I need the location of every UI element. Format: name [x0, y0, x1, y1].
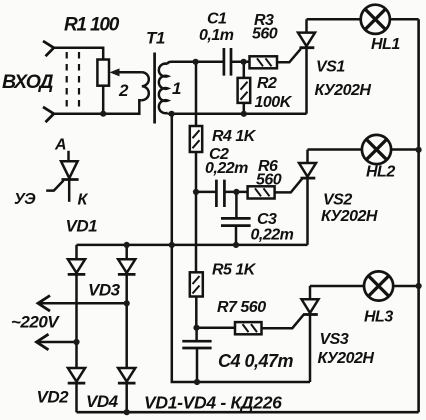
- thyristor VS2 triangle: [299, 163, 316, 177]
- svg-text:100K: 100K: [255, 94, 293, 111]
- junction node C2 R6 C3: [233, 189, 239, 195]
- wire node B to C2: [196, 191, 216, 194]
- resistor R2 hatch: [241, 82, 248, 100]
- thyristor VS1 anode: [305, 19, 308, 32]
- diode VD4 triangle: [118, 368, 135, 382]
- resistor R5 body: [190, 272, 203, 296]
- svg-text:1: 1: [172, 79, 181, 98]
- thyristor VS1 cathode bar: [300, 46, 315, 49]
- pinout symbol triangle: [61, 161, 78, 178]
- wire R1 bottom: [102, 86, 105, 114]
- junction node B R4 C2: [193, 189, 199, 195]
- resistor R7 hatch: [243, 324, 258, 332]
- svg-text:0,22m: 0,22m: [205, 160, 248, 177]
- junction node AC tap left column: [73, 339, 79, 345]
- junction node AC tap right column: [124, 300, 130, 306]
- svg-text:HL2: HL2: [366, 164, 395, 181]
- svg-text:VD4: VD4: [86, 392, 119, 411]
- svg-text:КУ202Н: КУ202Н: [318, 350, 375, 367]
- svg-text:КУ202Н: КУ202Н: [315, 82, 372, 99]
- thyristor VS3 cathode bar: [303, 313, 318, 316]
- junction node R1 bottom: [100, 111, 106, 117]
- thyristor VS2 anode: [306, 150, 309, 163]
- common rail bridge top: [77, 244, 308, 247]
- junction node C3 on rail: [233, 242, 239, 248]
- diode VD2 triangle: [68, 368, 85, 382]
- wire C3 top stub: [235, 192, 238, 218]
- junction node HL3 rail: [416, 283, 422, 289]
- svg-text:560: 560: [256, 172, 282, 189]
- transformer T1 primary winding 2: [142, 72, 149, 100]
- lamp HL3 cross: [368, 276, 389, 297]
- AC lower arrowhead: [37, 334, 49, 350]
- resistor R1 body: [97, 60, 109, 86]
- input connector upper arrow: [43, 41, 54, 56]
- svg-text:VS2: VS2: [323, 192, 352, 209]
- junction node HL2 rail: [416, 147, 422, 153]
- svg-text:HL3: HL3: [364, 309, 393, 326]
- wire input top to R1: [54, 48, 103, 60]
- wire input bottom to T1 primary: [54, 100, 142, 114]
- svg-text:~220V: ~220V: [11, 313, 60, 332]
- junction node C4 bottom: [194, 379, 200, 385]
- R1 wiper wire: [117, 71, 142, 74]
- wire HL1 to right rail: [390, 18, 419, 21]
- svg-text:HL1: HL1: [371, 36, 400, 53]
- wire AC upper tap: [38, 302, 127, 305]
- svg-text:VS3: VS3: [320, 331, 349, 348]
- resistor R2 body: [238, 78, 251, 103]
- bridge left column: [75, 245, 78, 412]
- resistor R6 body: [248, 186, 275, 198]
- bottom rail: [77, 411, 419, 414]
- wire node C to R7: [196, 326, 235, 329]
- resistor R2 stubs: [243, 62, 246, 114]
- wire R5 bottom to node C: [195, 297, 198, 328]
- right rail: [417, 19, 420, 412]
- thyristor VS2 cathode bar: [301, 177, 316, 180]
- pinout symbol cathode lead: [68, 180, 71, 202]
- junction node bridge right top: [124, 242, 130, 248]
- svg-text:VS1: VS1: [316, 59, 345, 76]
- wire HL3 to right rail: [393, 285, 418, 288]
- diode VD1 triangle: [68, 259, 85, 273]
- resistor R4 hatch: [193, 130, 200, 148]
- junction node T1 secondary bottom: [169, 111, 175, 117]
- svg-text:C4 0,47m: C4 0,47m: [218, 351, 294, 371]
- svg-text:560: 560: [252, 26, 278, 43]
- svg-text:R1 100: R1 100: [64, 15, 120, 36]
- wire VS3 cathode: [309, 315, 312, 383]
- wire R7 to VS3 gate: [262, 315, 304, 329]
- AC upper arrowhead: [38, 296, 50, 312]
- diode VD1 bar: [68, 273, 86, 276]
- resistor R3 hatch: [257, 58, 272, 66]
- pinout symbol anode lead: [67, 151, 70, 161]
- svg-text:VD1: VD1: [66, 217, 98, 236]
- svg-text:ВХОД: ВХОД: [2, 71, 53, 93]
- resistor R3 body: [250, 56, 278, 68]
- wire T1 secondary bottom: [168, 113, 172, 114]
- svg-text:R4 1K: R4 1K: [212, 128, 257, 145]
- svg-text:VD3: VD3: [88, 281, 121, 300]
- svg-text:VD1-VD4 - КД226: VD1-VD4 - КД226: [144, 393, 282, 413]
- transformer T1 core: [153, 53, 156, 124]
- capacitor C1 plates: [224, 48, 231, 76]
- lamp HL1 cross: [365, 9, 386, 30]
- R1 wiper arrowhead: [110, 68, 120, 76]
- wire C4 bottom stub: [196, 348, 199, 382]
- svg-text:R7 560: R7 560: [217, 299, 266, 316]
- svg-text:0,22m: 0,22m: [251, 227, 294, 244]
- junction node return column on rail: [169, 242, 175, 248]
- svg-text:R2: R2: [257, 75, 277, 92]
- svg-text:0,1m: 0,1m: [199, 27, 234, 44]
- pinout symbol cathode bar: [62, 178, 79, 181]
- thyristor VS3 anode: [309, 286, 312, 300]
- wire R6 to VS2 gate: [275, 179, 302, 193]
- wire T1 secondary top to node A and C1: [168, 62, 224, 64]
- wire C3 bottom stub: [235, 226, 238, 245]
- wire VS1 anode to HL1: [307, 18, 362, 21]
- shield dashed line left: [66, 52, 68, 107]
- wire C1 to R3 node: [231, 61, 250, 64]
- resistor R6 hatch: [255, 188, 270, 196]
- lamp HL2 cross: [366, 139, 387, 160]
- wire C2 to R6: [224, 191, 247, 194]
- svg-text:КУ202Н: КУ202Н: [321, 208, 378, 225]
- wire node A down through R4: [195, 62, 198, 273]
- svg-text:A: A: [54, 137, 66, 154]
- resistor R7 body: [235, 322, 262, 334]
- diode VD3 triangle: [118, 259, 135, 273]
- transformer T1 secondary winding 1: [159, 64, 168, 114]
- wire T1 bottom column down to cathode return: [172, 114, 310, 382]
- bridge right column: [125, 245, 128, 412]
- input connector lower arrow: [43, 107, 54, 122]
- diode VD3 bar: [118, 273, 136, 276]
- wire VS3 anode to HL3: [310, 285, 364, 288]
- wire VS1 cathode: [305, 48, 308, 114]
- svg-text:УЭ: УЭ: [14, 191, 36, 208]
- wire common mid rail: [172, 113, 307, 116]
- wire C4 top stub: [195, 328, 198, 342]
- capacitor C2 plates: [216, 180, 224, 207]
- thyristor VS3 triangle: [302, 299, 319, 313]
- wire AC lower tap: [37, 341, 77, 344]
- pinout symbol gate lead: [46, 181, 63, 191]
- junction node bridge right bottom: [124, 409, 130, 415]
- svg-text:VD2: VD2: [37, 388, 70, 407]
- junction node A T1 top: [193, 59, 199, 65]
- thyristor VS1 triangle: [298, 33, 315, 47]
- resistor R4 body: [190, 126, 202, 152]
- wire HL2 to right rail: [391, 148, 418, 151]
- shield dashed line right: [78, 52, 80, 107]
- diode VD4 bar: [118, 382, 136, 385]
- junction node C1 R3 R2: [241, 59, 247, 65]
- svg-text:R5 1K: R5 1K: [212, 262, 257, 279]
- junction node R2 bottom: [241, 111, 247, 117]
- svg-text:2: 2: [118, 81, 129, 100]
- capacitor C4 plates: [182, 341, 211, 348]
- svg-text:C3: C3: [257, 211, 277, 228]
- lamp HL1 circle: [361, 5, 390, 34]
- resistor R5 hatch: [193, 276, 200, 294]
- lamp HL3 circle: [364, 271, 393, 300]
- wire R3 to VS1 gate: [277, 49, 301, 63]
- lamp HL2 circle: [362, 135, 391, 164]
- svg-text:C1: C1: [207, 11, 227, 28]
- svg-text:T1: T1: [146, 29, 165, 48]
- capacitor C3 plates: [221, 218, 251, 225]
- wire VS2 anode to HL2: [308, 148, 363, 151]
- diode VD2 bar: [68, 382, 86, 385]
- wire VS2 cathode to rail: [306, 178, 309, 245]
- junction node C R5 R7 C4: [193, 325, 199, 331]
